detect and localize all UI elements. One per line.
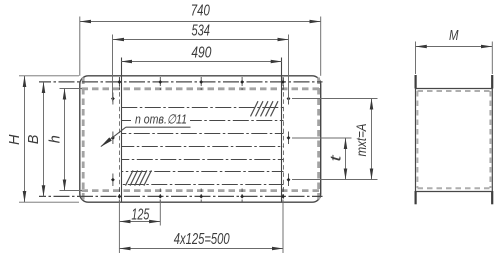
main view outer body bbox=[80, 76, 321, 202]
hidden flange edge (gray dashed) top bbox=[82, 87, 320, 90]
side view hidden edge right (gray dashed) bbox=[489, 91, 491, 188]
dimension H line bbox=[24, 76, 26, 202]
side view flange lip bottom left bbox=[415, 191, 417, 204]
dimension mxt=A line bbox=[371, 99, 373, 180]
dimension 534 extension right bbox=[288, 35, 290, 102]
extension line right hole 3 bbox=[292, 179, 378, 181]
side view bottom member bbox=[416, 191, 493, 193]
dimension h line bbox=[64, 89, 66, 191]
side view left wall bbox=[415, 75, 417, 204]
flange inner edge left / extension of 490 bbox=[121, 58, 123, 202]
dimension H extension top bbox=[19, 75, 79, 77]
side view hidden edge left (gray dashed) bbox=[416, 91, 418, 188]
dimension 740 line bbox=[80, 21, 321, 23]
hidden flange thickness edge left (dashed) bbox=[119, 78, 121, 202]
svg-text:740: 740 bbox=[191, 2, 210, 19]
interior centre line 5 bbox=[121, 159, 283, 161]
dimension 125 line bbox=[119, 221, 160, 223]
side view hidden edge bottom (gray dashed) bbox=[418, 187, 491, 189]
leader shelf bbox=[126, 126, 191, 128]
side view hidden edge top (gray dashed) bbox=[418, 90, 491, 92]
svg-text:n отв.∅11: n отв.∅11 bbox=[135, 111, 187, 126]
side hole centre ticks right bbox=[288, 93, 290, 187]
dimension 125 extension left bbox=[118, 200, 120, 254]
dimension 740 extension left bbox=[79, 17, 81, 76]
interior centre line 2 bbox=[121, 120, 283, 122]
flange inner edge right / extension of 490 bbox=[281, 58, 283, 202]
hidden flange thickness edge right (dashed) bbox=[283, 78, 285, 202]
dimension 534 line bbox=[113, 39, 289, 41]
leader arrowhead bbox=[100, 137, 112, 147]
bottom hole row centre line bbox=[39, 195, 323, 197]
hidden flange edge (gray dashed) left bbox=[82, 78, 85, 202]
hatch marks top right bbox=[251, 101, 279, 116]
extension line right hole 1 bbox=[292, 98, 378, 100]
dimension B line bbox=[43, 82, 45, 196]
interior centre line 6 bbox=[121, 171, 283, 173]
dimension 4x125=500 extension right bbox=[282, 200, 284, 254]
label n otv d11 background bbox=[131, 113, 190, 126]
side view flange lip top left bbox=[415, 75, 417, 89]
interior centre line 4 bbox=[121, 146, 283, 148]
interior centre line 7 bbox=[121, 184, 283, 186]
svg-text:B: B bbox=[25, 135, 42, 145]
dimension h extension bottom bbox=[60, 190, 83, 192]
holes bottom row bbox=[118, 195, 285, 199]
leader line bbox=[101, 127, 126, 146]
hidden flange edge (gray dashed) right bbox=[317, 78, 320, 202]
dimension M extension right bbox=[491, 42, 493, 75]
holes top row bbox=[118, 80, 285, 84]
interior centre line 1 bbox=[121, 107, 283, 109]
svg-text:490: 490 bbox=[191, 44, 211, 61]
svg-text:h: h bbox=[46, 135, 63, 143]
dimension 534 extension left bbox=[112, 35, 114, 102]
svg-text:M: M bbox=[449, 27, 459, 44]
dimension t line bbox=[345, 138, 347, 180]
dimension 4x125=500 line bbox=[119, 248, 283, 250]
svg-text:mxt=A: mxt=A bbox=[353, 124, 369, 157]
side hole centre ticks left bbox=[112, 93, 114, 187]
top hole centre ticks bbox=[119, 77, 283, 90]
side view flange lip top right bbox=[491, 75, 493, 89]
side view right wall bbox=[491, 75, 493, 204]
holes left column bbox=[111, 97, 115, 182]
dimension M extension left bbox=[415, 42, 417, 75]
top hole row centre line bbox=[39, 81, 323, 83]
svg-text:t: t bbox=[328, 154, 345, 161]
hidden flange edge (gray dashed) bottom bbox=[82, 189, 320, 192]
extension line right hole 2 bbox=[292, 137, 352, 139]
holes right column bbox=[287, 97, 291, 182]
svg-text:534: 534 bbox=[191, 23, 210, 40]
svg-text:4x125=500: 4x125=500 bbox=[174, 231, 230, 248]
side view top member bbox=[416, 88, 493, 90]
bottom hole centre ticks bbox=[119, 189, 283, 202]
svg-text:125: 125 bbox=[131, 206, 149, 223]
side view flange lip bottom right bbox=[491, 191, 493, 204]
dimension 490 line bbox=[121, 61, 282, 63]
interior centre line 3 bbox=[121, 133, 283, 135]
dimension H extension bottom bbox=[19, 201, 79, 203]
hatch marks bottom left bbox=[126, 170, 152, 185]
svg-text:H: H bbox=[6, 134, 23, 145]
dimension 740 extension right bbox=[320, 17, 322, 76]
dimension 125 extension right bbox=[159, 200, 161, 226]
dimension M line bbox=[416, 46, 493, 48]
dimension h extension top bbox=[60, 88, 83, 90]
